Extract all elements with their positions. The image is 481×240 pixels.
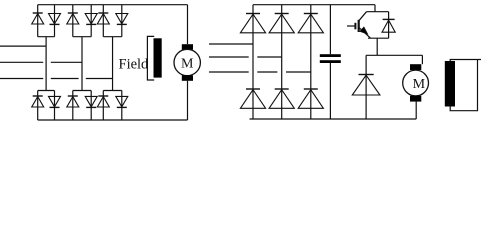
wire collector drop <box>374 5 376 12</box>
motor M2 armature circle <box>403 70 429 96</box>
transistor Q1 gate bar <box>354 23 356 30</box>
thyristor B3P (up) bottom group <box>98 95 108 97</box>
svg-text:Field: Field <box>119 57 150 73</box>
wire rectifier leg 1 <box>252 5 254 119</box>
transistor Q1 collector stroke <box>359 12 366 21</box>
wire top pair 2 right branch <box>90 5 92 37</box>
svg-text:M: M <box>413 77 426 92</box>
wire bottom pair 1 right branch <box>54 91 56 121</box>
wire bottom pair 1 top bar <box>38 90 55 92</box>
brush (right motor, bottom) <box>410 96 421 102</box>
wire top rail (right drive) <box>253 4 375 6</box>
wire bottom pair 2 top bar <box>73 90 91 92</box>
brush (left motor, top) <box>182 44 193 49</box>
wire AC phase line 3 (right drive) <box>209 71 249 73</box>
thyristor T2N (down) top group <box>86 23 96 25</box>
wire AC phase line 1 (right drive) <box>209 43 253 45</box>
wire bottom pair 2 right branch <box>90 91 92 121</box>
wire bottom pair 2 left branch <box>72 91 74 121</box>
wire emitter drop <box>376 38 378 55</box>
thyristor T1P (up) top group <box>33 12 43 14</box>
wire armature top (right drive) <box>421 55 423 64</box>
wire AC phase line 2 (left drive) <box>0 61 43 63</box>
wire bottom pair 3 top bar <box>103 90 122 92</box>
wire rectifier leg 3 <box>310 5 312 119</box>
wire freewheel branch <box>365 55 367 119</box>
field winding frame (right) <box>450 60 481 111</box>
diode D1' (bottom, leg 1) <box>246 88 260 90</box>
wire bottom rail (right drive) <box>250 118 417 120</box>
wire top pair 3 bottom bar <box>103 36 122 38</box>
wire top pair 2 left branch <box>72 5 74 37</box>
thyristor T3N (down) top group <box>117 23 127 25</box>
svg-text:M: M <box>181 57 194 72</box>
wire gate lead <box>347 25 355 27</box>
diode Dq (anti-parallel) <box>383 18 395 20</box>
capacitor C plate 2 <box>320 60 341 63</box>
transistor Q1 body bar <box>358 20 360 32</box>
thyristor T1N (down) top group <box>50 23 60 25</box>
wire bottom pair 1 left branch <box>37 91 39 121</box>
wire bottom pair 3 left branch <box>102 91 104 121</box>
wire top pair 2 bottom bar <box>73 36 91 38</box>
thyristor B1N (down) bottom group <box>50 106 60 108</box>
diode D3 (top, leg 3) <box>304 13 318 15</box>
wire chopper output node <box>366 54 422 56</box>
wire IGBT module top bar <box>367 11 389 13</box>
thyristor B1P (up) bottom group <box>33 95 43 97</box>
wire leg 1 (AC node) <box>45 37 47 91</box>
wire armature top (left drive) <box>187 5 189 45</box>
capacitor C plate 1 <box>320 54 341 57</box>
wire top pair 1 bottom bar <box>38 36 55 38</box>
diode D2' (bottom, leg 2) <box>275 88 289 90</box>
brush (left motor, bottom) <box>182 75 193 80</box>
wire bottom rail (left drive) <box>38 119 188 121</box>
wire AC phase line 2 (right drive) <box>209 56 249 58</box>
wire leg 2 (AC node) <box>81 37 83 91</box>
diode D1 (top, leg 1) <box>246 13 260 15</box>
wire top pair 1 right branch <box>54 5 56 37</box>
diode Dq (anti-parallel) lead <box>388 12 390 39</box>
thyristor T3P (up) top group <box>98 12 108 14</box>
thyristor T2P (up) top group <box>68 12 78 14</box>
wire leg 3 (AC node) <box>112 37 114 91</box>
wire rectifier leg 2 <box>281 5 283 119</box>
motor M1 armature circle <box>174 49 200 75</box>
wire AC phase line 3 (left drive) <box>0 78 43 80</box>
wire top rail (left drive) <box>38 4 188 6</box>
thyristor B2P (up) bottom group <box>68 95 78 97</box>
wire top pair 3 left branch <box>102 5 104 37</box>
field winding frame (left) <box>147 36 154 80</box>
wire top pair 3 right branch <box>121 5 123 37</box>
wire IGBT module bottom bar <box>368 37 389 39</box>
thyristor B2N (down) bottom group <box>86 106 96 108</box>
thyristor B3N (down) bottom group <box>117 106 127 108</box>
diode D2 (top, leg 2) <box>275 13 289 15</box>
brush (right motor, top) <box>410 64 421 70</box>
wire top pair 1 left branch <box>37 5 39 37</box>
wire armature bottom (left drive) <box>187 81 189 120</box>
diode D3' (bottom, leg 3) <box>304 88 318 90</box>
transistor Q1 emitter stroke <box>359 27 371 38</box>
wire AC phase line 1 (left drive) <box>0 45 46 47</box>
transistor Q1 emitter arrow <box>360 27 367 34</box>
field winding F2 (solid) <box>445 61 455 107</box>
diode Df (freewheel) <box>359 74 374 76</box>
field winding F1 (solid) <box>154 38 162 77</box>
wire capacitor bottom lead <box>329 63 331 119</box>
wire capacitor top lead <box>329 5 331 55</box>
wire armature bottom (right drive) <box>415 102 417 119</box>
wire bottom pair 3 right branch <box>121 91 123 121</box>
